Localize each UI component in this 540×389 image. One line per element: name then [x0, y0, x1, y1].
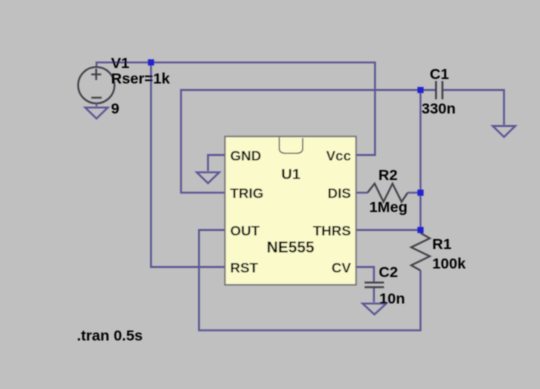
wire CV pin stub to C2 and below	[356, 267, 374, 302]
svg-text:U1: U1	[281, 166, 300, 183]
IC U1 NE555 body	[225, 137, 356, 285]
svg-text:THRS: THRS	[313, 222, 351, 238]
pin label Vcc	[326, 147, 351, 163]
label V1	[111, 55, 129, 72]
resistor R2	[368, 184, 408, 202]
svg-text:DIS: DIS	[328, 185, 351, 201]
node B junction (C1)	[417, 87, 423, 93]
pin label CV	[332, 259, 352, 275]
svg-text:TRIG: TRIG	[230, 185, 264, 201]
wire TRIG pin to C1 rail	[181, 90, 421, 193]
svg-text:9: 9	[111, 101, 119, 118]
wire GND pin stub	[208, 155, 226, 171]
svg-text:R2: R2	[378, 167, 397, 184]
svg-text:Vcc: Vcc	[326, 147, 351, 163]
wire OUT pin to bottom rail and up to R1 bottom	[199, 230, 421, 330]
svg-text:100k: 100k	[432, 256, 466, 273]
voltage source V1	[78, 67, 114, 103]
pin label RST	[230, 259, 258, 275]
wire right vertical from C1 node to THRS node	[420, 90, 422, 230]
node A junction	[148, 59, 154, 65]
label C1	[430, 66, 449, 83]
pin label GND	[230, 147, 261, 163]
wire from node A down to RST pin	[151, 62, 226, 267]
svg-text:C2: C2	[379, 264, 398, 281]
capacitor C2	[365, 283, 384, 288]
svg-text:Rser=1k: Rser=1k	[111, 71, 170, 88]
wire THRS pin to node D	[356, 229, 421, 231]
svg-text:GND: GND	[230, 147, 261, 163]
svg-text:1Meg: 1Meg	[369, 199, 407, 216]
label 100k	[432, 256, 466, 273]
ground at C1	[493, 126, 516, 137]
svg-text:R1: R1	[432, 236, 451, 253]
svg-text:10n: 10n	[379, 291, 405, 308]
svg-text:.tran 0.5s: .tran 0.5s	[77, 328, 143, 345]
node D junction (THRS/R1)	[417, 227, 423, 233]
ground at V1	[85, 108, 108, 119]
pin label TRIG	[230, 185, 264, 201]
label 9	[111, 101, 119, 118]
ground at GND pin	[197, 172, 220, 183]
pin label OUT	[230, 222, 260, 238]
svg-text:RST: RST	[230, 259, 258, 275]
label 330n	[422, 101, 456, 118]
node C junction (DIS/R2)	[417, 190, 423, 196]
label NE555	[267, 240, 315, 257]
wire V1 bottom stub	[96, 104, 98, 107]
svg-text:C1: C1	[430, 66, 449, 83]
label R1	[432, 236, 451, 253]
wire top rail from V1 top to Vcc pin	[97, 62, 376, 155]
svg-text:NE555: NE555	[267, 240, 315, 257]
spice directive .tran 0.5s	[77, 328, 143, 345]
wire DIS pin stub and R2 lead	[356, 192, 421, 194]
wire C1 leads and run to right ground	[421, 90, 505, 125]
svg-text:OUT: OUT	[230, 222, 260, 238]
label C2	[379, 264, 398, 281]
svg-text:V1: V1	[111, 55, 129, 72]
label R2	[378, 167, 397, 184]
pin label THRS	[313, 222, 351, 238]
pin label DIS	[328, 185, 351, 201]
label 10n	[379, 291, 405, 308]
svg-text:330n: 330n	[422, 101, 456, 118]
resistor R1	[411, 233, 430, 271]
ground at C2	[363, 304, 387, 315]
IC notch	[279, 137, 302, 153]
label U1	[281, 166, 300, 183]
label 1Meg	[369, 199, 407, 216]
label Rser=1k	[111, 71, 170, 88]
svg-text:CV: CV	[332, 259, 352, 275]
capacitor C1	[436, 81, 442, 99]
